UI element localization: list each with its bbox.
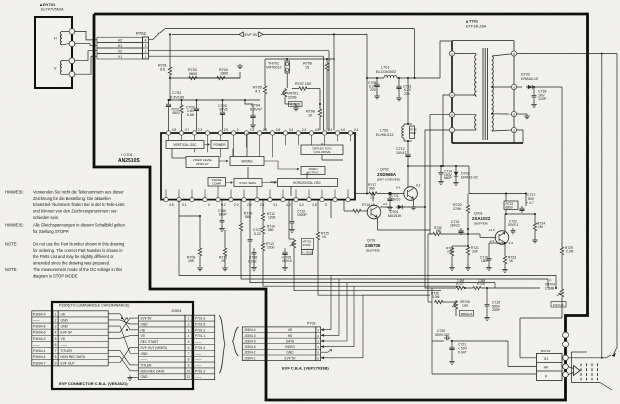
CRT electron gun [574, 366, 581, 376]
link wire bus 6 [318, 250, 430, 295]
transistor Q701 2SB709 buffer [367, 205, 381, 219]
flyback primary winding lower [455, 114, 476, 116]
wire node to flyback primary top [440, 41, 452, 78]
flyback pin H high voltage [511, 51, 516, 56]
capacitor C716 180P [488, 243, 490, 256]
CRT grid dashes [580, 364, 582, 381]
wire horizontal feed y=28.6 to flyback drive [165, 28, 415, 30]
Q702 emitter to ground [413, 199, 415, 205]
H deflection coil of DY701 [60, 32, 62, 45]
resistor R704 1800 [216, 76, 226, 79]
wire R716 from IC pin [343, 200, 345, 211]
wire flyback pin3 down to Q703 base network [430, 115, 449, 234]
interconnect wires between P1505 and J1504 tables [108, 314, 138, 330]
block POWER [211, 141, 228, 149]
wire IC pin13 down to R716 bus [330, 200, 332, 218]
wire Q703 collector up [504, 214, 506, 232]
link bus ends joining risers [363, 294, 430, 296]
wire flyback pin1 drive down to deflection [425, 130, 449, 288]
wire L701 row y=78 [367, 77, 384, 79]
wire EVF5V rail turning down at x=367 [366, 34, 368, 78]
internal wire SYNC SEPA feed [247, 173, 249, 179]
flyback core [482, 48, 484, 140]
block VIDEO LEVEL DISPLAY [186, 157, 219, 168]
wire P701 pin5 skew-arrow gnd mark [321, 351, 328, 353]
arrow VIDEO LEVEL DISPLAY to MIXING [219, 160, 228, 162]
resistor R701 6.8 [168, 66, 171, 76]
flyback pin 5 [511, 127, 516, 132]
arrow PHASE COMP to SYNC SEPA [226, 182, 233, 184]
CRT anode connection [568, 357, 606, 359]
resistor R715 1K [317, 200, 319, 231]
capacitor C713 6.2V 220 [398, 78, 400, 84]
wire bus elbow to C704 [245, 100, 253, 104]
arrow MIXING to VIDEO OUTPUT [264, 161, 299, 170]
EVF connector board thick box [52, 302, 193, 389]
CRT envelope [572, 351, 588, 353]
resistor R702 6800 [181, 100, 183, 104]
wire V2 from P702 pin2 to IC [149, 50, 330, 52]
wire R701 to bias bus [169, 76, 171, 100]
wire pin H to CRT anode lead [517, 53, 617, 55]
block PHASE COMP [208, 178, 226, 187]
wire IC pin2 down [178, 200, 180, 216]
link wire bus 3 [250, 246, 495, 283]
connector P702 pin housing [143, 37, 149, 59]
wire R720 bus down [468, 166, 470, 194]
wire pin5 to return rail [517, 130, 523, 143]
resistor R722 6800 boxed [504, 201, 518, 210]
yoke terminal pins [69, 29, 75, 35]
CRT socket pin G1 [563, 355, 569, 361]
wire x=367 down to Q701 zone [366, 78, 368, 194]
wire feed down x=414 to L701 node [414, 29, 416, 78]
boxed label BRIGHT [460, 311, 474, 317]
boxed label V. SIZE [289, 102, 303, 107]
resistor R711 1K [224, 230, 226, 247]
flyback pin 1 [449, 127, 454, 132]
capacitor C718 1KV 120P [533, 87, 535, 93]
resistor R714 560 [262, 222, 264, 225]
arrow VERTICAL OSC to POWER [204, 144, 210, 146]
bias bus wire y=100 [169, 99, 261, 101]
internal wire DEFLECTION drive to pins [321, 143, 323, 145]
brace right of J1504 table [219, 315, 225, 373]
block MIXING [230, 157, 264, 166]
IC701 bottom pin row [164, 197, 168, 201]
flyback secondary bottom stub to pin 5 [492, 130, 512, 131]
connector table P3004 to P1505 [32, 311, 53, 366]
outer thick border of EVF circuit board region [94, 14, 588, 400]
CRT socket pin HK [563, 364, 569, 370]
flyback bottom return rail [452, 142, 523, 144]
block DEFLECTION COIL DRIVE [301, 145, 343, 155]
wire V1 from P702 pin1 to IC [149, 55, 324, 57]
IC701 AN2510S body [161, 133, 355, 200]
resistor R713 2200 [261, 242, 264, 252]
wire yoke pin3 to V2 row [74, 51, 97, 61]
wire yoke pin2 to H1 row [74, 44, 97, 46]
wire focus net to G1 grid [561, 298, 563, 318]
resistor R719 2200 [451, 246, 453, 247]
wire D703 node to focus divider [534, 86, 562, 88]
flyback secondary tap to pin 6 [491, 86, 493, 88]
block VIDEO OUTPUT [301, 167, 325, 175]
capacitor C714 100V 560P [440, 166, 442, 170]
wire flyback pin8 to ground [517, 113, 527, 115]
capacitor C709 16V10 [284, 248, 286, 250]
flyback body right edge [513, 41, 515, 143]
wire yoke pin1 to H2 row [74, 32, 97, 40]
resistor R729 2.2M [560, 246, 563, 256]
flyback primary rail [451, 41, 453, 143]
wire EVF5V branch down x=170 [169, 34, 171, 66]
resistor R723 1K [504, 243, 506, 255]
resistor R712 120K [262, 200, 264, 212]
connector pins in EHT lead [563, 332, 569, 338]
wire heater row to socket [470, 340, 508, 342]
wire Q703 base from R730 node [468, 233, 480, 235]
heater supply wire down right margin [601, 54, 603, 358]
link wire bus 4 [263, 258, 460, 286]
wire cathode row to socket [432, 373, 536, 375]
flyback secondary winding [492, 56, 493, 131]
wire top rail y=59 for thermistor network [265, 58, 335, 60]
resistor R721 22K [466, 246, 469, 256]
internal wire MIXING up to pin [246, 133, 248, 157]
wire P701 pin6 EVF5V from right [321, 295, 363, 358]
brace left of P701 table [233, 327, 239, 356]
ground for J1504 pin 11 [130, 377, 139, 379]
Q701 emitter down to output bus [377, 218, 379, 230]
potentiometer VR702 47000 horizontal hold [288, 200, 290, 239]
V deflection coil of DY701 [60, 61, 62, 75]
flyback pin 3 [449, 112, 454, 117]
deflection yoke DY701 box [35, 17, 72, 88]
wire x=408 down from L701 node [407, 78, 409, 124]
wire to Q702 collector [407, 166, 409, 187]
wires from link buses down to P701 pins [321, 275, 331, 329]
link wire bus 2 [199, 213, 201, 216]
flyback secondary tap to pin 8 [491, 113, 493, 115]
IC701 top pin row [166, 131, 170, 135]
ground for VR701 [295, 104, 297, 106]
flyback pin 2 [449, 51, 454, 56]
arrow SYNC SEPA to HORIZONTAL OSC [262, 182, 276, 184]
boxed label FOCUS [551, 302, 566, 308]
wire EVF5V down to IC pin x=334 [333, 34, 335, 130]
block HORIZONTAL OSC [278, 179, 338, 187]
paper texture overlay [0, 0, 1, 1]
flyback secondary top stub to H pin [492, 54, 512, 56]
IC701 internal pin stub wires [168, 135, 170, 141]
capacitor C708 0.022 [253, 248, 255, 250]
diode D701 MA151K [380, 206, 392, 208]
resistor R709 15K [199, 216, 201, 247]
flyback pin 4 [449, 92, 454, 97]
block SYNC SEPA [234, 179, 262, 187]
wire row H1 to P702 pin 3 [97, 43, 143, 49]
wire R704 to ground stub [226, 72, 240, 78]
wire row V2 to P702 pin 2 [97, 48, 143, 54]
wire from P702 pin4 rising to horizontal feed [149, 35, 159, 40]
long sense wires from under-IC bus to right amp [555, 275, 557, 288]
resistor R703 5600 [188, 76, 198, 79]
link wire bus 1 [179, 216, 556, 275]
wire row H2 to P702 pin 4 [97, 37, 143, 42]
wire yoke pin4 to V1 row [74, 56, 97, 74]
wire brightness net down to cathode row [431, 288, 433, 374]
wire brightness row y=288 [432, 287, 455, 289]
link wire bus 5 [294, 258, 441, 291]
wire bus risers to P701 connector [331, 303, 340, 327]
wire row V1 to P702 pin 1 [97, 54, 143, 60]
wire y=78 resistor row [170, 77, 240, 79]
wire flyback pin4 loop down to C714 bus [443, 95, 449, 166]
junction EVF5V rail [333, 33, 335, 35]
connector table P701 on EVF CBA [242, 327, 266, 361]
wire collector bus y=193.5 right [469, 193, 526, 195]
flyback primary top link to secondary [452, 40, 514, 42]
wire R720 junction down to R719 R721 [467, 221, 469, 246]
internal wire VERTICAL OSC down to pins [171, 149, 173, 159]
flyback pin 8 [511, 111, 516, 116]
block VERTICAL OSC [166, 141, 204, 149]
CRT socket pin K [563, 372, 569, 378]
flyback pin 6 [511, 84, 516, 89]
flyback primary winding upper [455, 53, 476, 55]
diode D702 ERA91-02 [455, 166, 457, 170]
wire y=166 to C714 D702 R720 bus [408, 165, 469, 167]
wire EVF 5V rail [172, 33, 239, 35]
internal wire HORIZONTAL OSC to pin [290, 187, 292, 197]
